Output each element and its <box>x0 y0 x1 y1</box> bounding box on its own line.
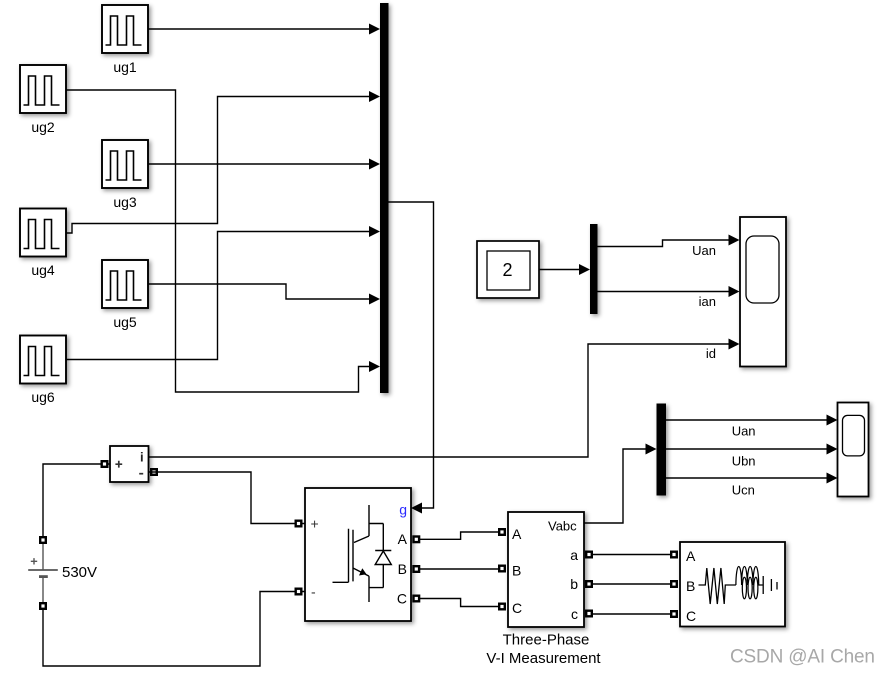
wire demux out1 Uan to scope <box>598 235 740 247</box>
svg-text:ian: ian <box>699 294 716 309</box>
wire mux output to bridge gate g <box>389 202 434 514</box>
svg-text:B: B <box>512 563 521 579</box>
port square current meas plus <box>101 460 109 468</box>
svg-text:g: g <box>399 502 407 518</box>
three-phase series RLC load block <box>680 542 785 627</box>
port square bridge plus <box>295 520 303 528</box>
svg-text:Ubn: Ubn <box>732 454 756 469</box>
wire ug1 to mux input 1 <box>148 24 380 35</box>
wire ug2 to mux input 6 <box>66 90 380 392</box>
port square bridge B <box>412 565 420 573</box>
svg-text:c: c <box>571 606 578 622</box>
port square load B <box>670 580 678 588</box>
svg-text:B: B <box>686 578 695 594</box>
svg-text:Vabc: Vabc <box>548 519 577 534</box>
scope Scope1 (3 inputs) <box>838 403 869 497</box>
svg-text:C: C <box>397 591 407 607</box>
universal bridge block <box>305 488 411 621</box>
wire battery plus to current measurement <box>43 464 110 536</box>
wire bridge C to VI C <box>419 599 498 607</box>
three-phase V-I measurement block <box>508 512 584 627</box>
svg-text:ug6: ug6 <box>31 389 55 405</box>
scope Scope (3 inputs) <box>740 217 786 367</box>
port square bridge C <box>412 595 420 603</box>
svg-text:A: A <box>512 526 522 542</box>
port square VI B <box>498 565 506 573</box>
wire ug5 to mux input 5 <box>148 284 380 305</box>
wire demux3 out2 Ubn to scope1 <box>666 444 838 455</box>
wire current id to scope <box>149 339 740 458</box>
svg-text:-: - <box>311 584 316 600</box>
wire ug6 to mux input 4 <box>66 226 380 360</box>
svg-text:Uan: Uan <box>732 424 756 439</box>
demux Demux1 (2-output bar) <box>590 224 598 314</box>
port square battery minus <box>39 602 47 610</box>
wire battery minus to bridge minus <box>43 592 305 667</box>
wire VI a to load A <box>593 554 670 556</box>
wire demux3 out3 Ucn to scope1 <box>666 473 838 484</box>
svg-text:C: C <box>512 600 522 616</box>
wire ug4 to mux input 2 <box>66 91 380 233</box>
pulse generator ug1 <box>102 5 148 53</box>
svg-text:ug2: ug2 <box>31 119 55 135</box>
svg-text:C: C <box>686 608 696 624</box>
port square VI c <box>585 610 593 618</box>
port square battery plus <box>39 536 47 544</box>
svg-text:2: 2 <box>502 260 512 280</box>
svg-text:ug3: ug3 <box>113 194 137 210</box>
wire bridge A to VI A <box>419 532 498 539</box>
wire constant 2 to demux <box>539 264 590 275</box>
pulse generator ug3 <box>102 140 148 188</box>
wire current meas minus to bridge plus <box>149 472 306 524</box>
wire VI b to load B <box>593 583 670 585</box>
svg-text:ug4: ug4 <box>31 262 55 278</box>
igbt transistor icon <box>333 505 384 602</box>
svg-text:Three-Phase: Three-Phase <box>503 632 590 649</box>
pulse generator ug5 <box>102 260 148 308</box>
wire ug3 to mux input 3 <box>148 159 380 170</box>
svg-text:ug1: ug1 <box>113 59 137 75</box>
antiparallel diode icon <box>369 524 391 588</box>
svg-text:A: A <box>686 548 696 564</box>
svg-text:ug5: ug5 <box>113 314 137 330</box>
dc voltage source battery <box>28 544 58 602</box>
demux Demux2 (3-output bar) <box>657 404 667 496</box>
port square VI b <box>585 580 593 588</box>
wire demux out2 ian to scope <box>598 286 740 297</box>
port square load C <box>670 610 678 618</box>
svg-text:530V: 530V <box>62 564 97 581</box>
svg-text:id: id <box>706 346 716 361</box>
pulse generator ug2 <box>20 65 66 113</box>
wire VI c to load C <box>593 613 670 615</box>
svg-text:B: B <box>398 561 407 577</box>
constant block value 2 <box>477 241 539 298</box>
port square load A <box>670 551 678 559</box>
port square bridge A <box>412 535 420 543</box>
svg-text:a: a <box>570 547 578 563</box>
port square VI C <box>498 603 506 611</box>
wire bridge B to VI B <box>419 568 498 570</box>
mux Mux1 (6-input bar) <box>380 3 389 393</box>
current measurement block <box>110 446 149 482</box>
port square bridge minus <box>295 588 303 596</box>
svg-text:i: i <box>140 450 144 465</box>
svg-text:Ucn: Ucn <box>732 483 755 498</box>
resistor zigzag icon <box>699 568 736 604</box>
pulse generator ug4 <box>20 209 66 257</box>
svg-text:A: A <box>398 531 408 547</box>
port square VI a <box>585 551 593 559</box>
port square current meas minus <box>150 468 158 476</box>
svg-text:+: + <box>311 516 319 532</box>
capacitor plates icon <box>763 576 777 594</box>
svg-text:V-I Measurement: V-I Measurement <box>486 650 601 667</box>
svg-text:b: b <box>570 576 578 592</box>
wire demux3 out1 Uan to scope1 <box>666 415 838 426</box>
svg-text:Uan: Uan <box>692 243 716 258</box>
port square VI A <box>498 528 506 536</box>
inductor coil icon <box>736 566 763 598</box>
pulse generator ug6 <box>20 336 66 384</box>
svg-text:CSDN @AI Chen: CSDN @AI Chen <box>730 647 875 668</box>
wire Vabc to demux3 <box>584 444 657 524</box>
